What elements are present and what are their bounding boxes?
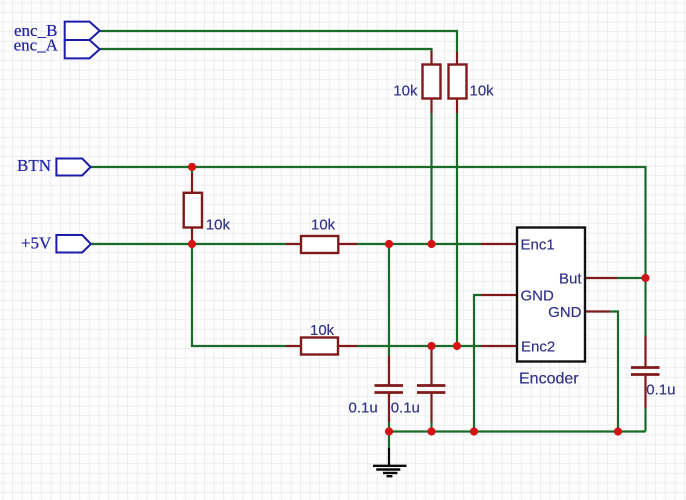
svg-text:10k: 10k (311, 217, 336, 234)
svg-text:0.1u: 0.1u (391, 399, 420, 416)
svg-text:10k: 10k (393, 82, 418, 99)
svg-text:10k: 10k (310, 322, 335, 339)
svg-text:enc_A: enc_A (14, 36, 59, 55)
svg-text:0.1u: 0.1u (349, 399, 378, 416)
svg-text:Enc1: Enc1 (521, 237, 555, 254)
svg-text:0.1u: 0.1u (646, 382, 675, 399)
svg-text:But: But (559, 271, 582, 288)
svg-text:GND: GND (548, 304, 582, 321)
svg-text:Enc2: Enc2 (521, 339, 555, 356)
svg-text:+5V: +5V (21, 233, 52, 252)
svg-text:BTN: BTN (17, 156, 51, 175)
svg-text:10k: 10k (206, 217, 231, 234)
svg-text:Encoder: Encoder (519, 371, 579, 388)
svg-text:GND: GND (521, 288, 555, 305)
svg-text:10k: 10k (470, 82, 495, 99)
